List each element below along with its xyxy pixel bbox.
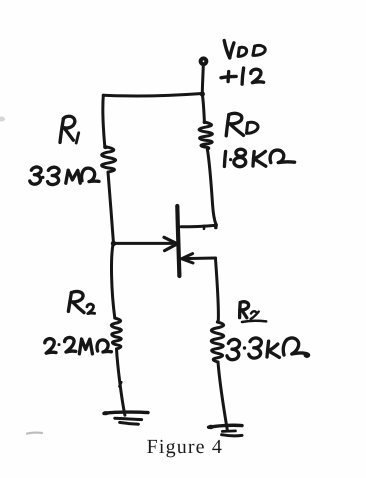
svg-text:Figure 4: Figure 4 — [147, 436, 223, 458]
